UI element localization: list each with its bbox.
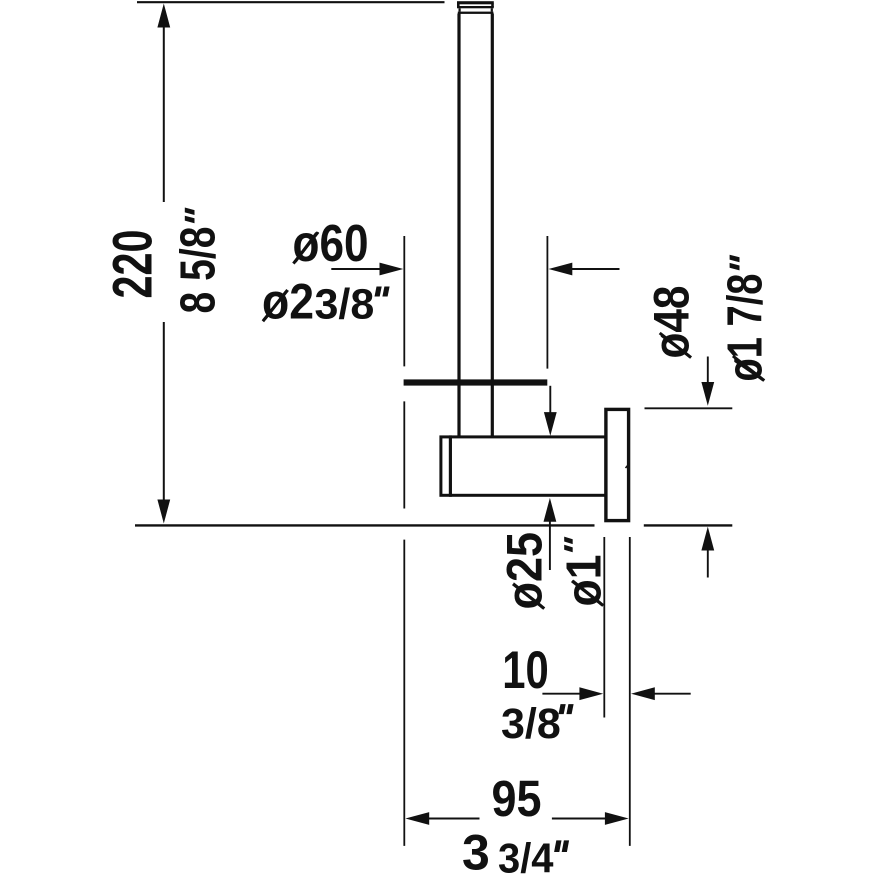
svg-text:3: 3 xyxy=(462,825,490,881)
svg-text:3/8: 3/8 xyxy=(315,281,375,329)
svg-text:ø48: ø48 xyxy=(643,286,699,359)
svg-text:ø60: ø60 xyxy=(293,214,369,272)
svg-text:ø1: ø1 xyxy=(558,555,612,607)
svg-text:220: 220 xyxy=(101,230,163,299)
svg-text:3/4: 3/4 xyxy=(498,835,554,882)
svg-text:ø25: ø25 xyxy=(496,532,553,610)
svg-text:8 5/8: 8 5/8 xyxy=(171,227,226,314)
svg-text:95: 95 xyxy=(492,770,542,827)
svg-text:3/8: 3/8 xyxy=(501,700,561,748)
svg-text:10: 10 xyxy=(502,641,549,700)
svg-text:ø2: ø2 xyxy=(262,273,314,330)
